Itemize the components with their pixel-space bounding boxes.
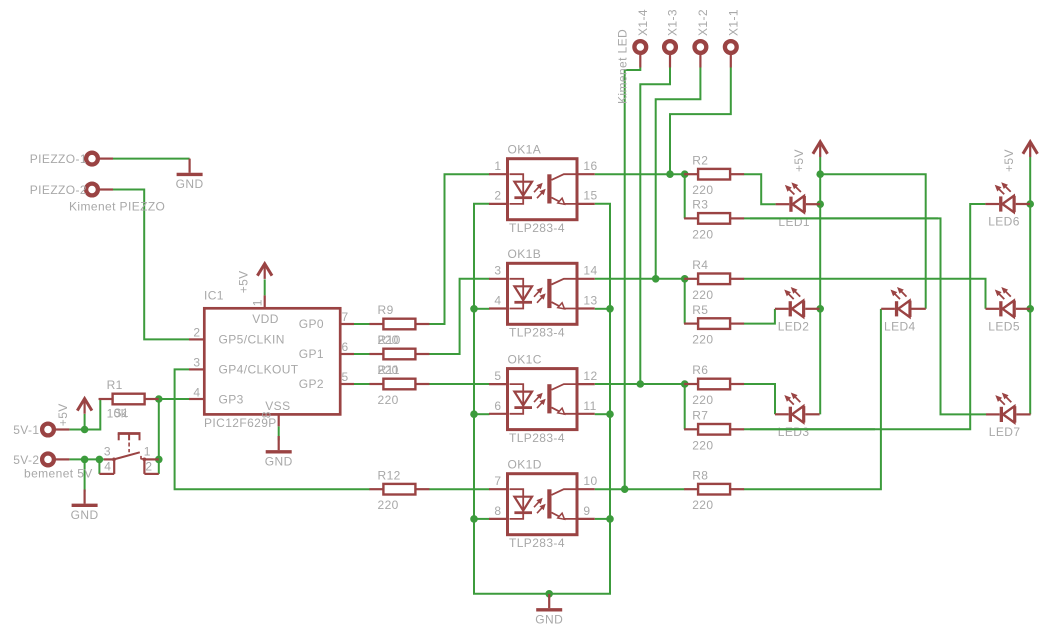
optocoupler OK1D [489, 474, 595, 535]
svg-text:9: 9 [583, 504, 590, 518]
resistor R11 [369, 379, 429, 390]
node X1-1 row A junction [666, 170, 674, 178]
IC1 pin 1 stub [264, 295, 266, 309]
svg-text:13: 13 [583, 294, 597, 308]
svg-text:Kimenet PIEZZO: Kimenet PIEZZO [69, 200, 165, 214]
svg-text:OK1A: OK1A [508, 143, 542, 157]
resistor R6 [684, 379, 744, 390]
wire OK1B pin4 [474, 308, 490, 310]
IC1 pin 7 stub [338, 323, 354, 325]
svg-text:220: 220 [378, 393, 399, 407]
LED LED2 [775, 287, 820, 317]
svg-text:TLP283-4: TLP283-4 [509, 221, 565, 235]
wire 5V-1 pad to +5V node [69, 429, 84, 431]
wire R1 to IC1 pin4 GP3 [159, 398, 189, 400]
IC1 pin 6 stub [338, 353, 354, 355]
svg-text:+5V: +5V [237, 270, 251, 293]
resistor R8 [684, 484, 744, 495]
LED LED4 [881, 287, 926, 317]
svg-text:220: 220 [378, 498, 399, 512]
svg-text:S1: S1 [114, 406, 129, 420]
wire R5 to LED2 [744, 309, 775, 324]
supply +5V arrow R1 [77, 399, 92, 414]
svg-text:R2: R2 [692, 153, 708, 167]
svg-text:PIEZZO-1: PIEZZO-1 [30, 152, 87, 166]
wire R12 to OK1D pin7 [429, 488, 490, 490]
svg-text:3: 3 [104, 444, 111, 458]
wire 5V-2 to GND drop [84, 459, 86, 491]
svg-text:R1: R1 [107, 378, 123, 392]
wire +5V left rail [819, 157, 821, 414]
wire R3 to LED7 [744, 218, 986, 414]
wire switch pin4 drop [98, 459, 100, 474]
node 5V-2 GND junction [81, 456, 89, 464]
svg-text:14: 14 [583, 264, 597, 278]
optocoupler OK1A [489, 159, 595, 220]
svg-text:R10: R10 [378, 333, 401, 347]
wire 5V-2 row [69, 458, 104, 460]
IC1 pin 5 stub [338, 383, 354, 385]
svg-text:8: 8 [494, 504, 501, 518]
svg-text:OK1B: OK1B [508, 247, 542, 261]
node LED5 anode junction [1026, 305, 1034, 313]
connector pad PIEZZO-1 [86, 153, 98, 165]
svg-text:GP2: GP2 [299, 377, 324, 391]
svg-text:GP1: GP1 [299, 347, 324, 361]
supply +5V arrow right rail [1023, 142, 1038, 157]
resistor R3 [684, 213, 744, 224]
svg-text:2: 2 [193, 326, 200, 340]
node emitter bus pin9 junction [606, 515, 614, 523]
wire R4 to LED5 [744, 279, 986, 309]
IC1 pin 8 VSS stub [278, 414, 280, 427]
svg-text:X1-3: X1-3 [666, 9, 680, 36]
svg-text:4: 4 [104, 460, 111, 474]
svg-text:4: 4 [193, 386, 200, 400]
wire R7 to LED6 [744, 204, 986, 429]
svg-text:GP5/CLKIN: GP5/CLKIN [219, 332, 285, 346]
LED LED3 [775, 393, 820, 423]
node cathode bus pin6 junction [470, 410, 478, 418]
wire PIEZZO-1 to GND [113, 158, 190, 160]
wire GP1 to R10 [354, 353, 370, 355]
svg-text:R11: R11 [378, 363, 400, 377]
wire OK1D pin9 [595, 518, 610, 520]
ground GND piezzo [176, 159, 204, 192]
wire R3 to LED7 overlay segment [750, 217, 938, 219]
svg-text:GP3: GP3 [219, 392, 244, 406]
wire R11 to OK1C pin5 [429, 383, 490, 385]
wire row A OK1A pin16 to R2 [595, 173, 685, 175]
svg-text:PIEZZO-2: PIEZZO-2 [30, 183, 87, 197]
svg-text:R6: R6 [692, 363, 708, 377]
svg-text:220: 220 [692, 183, 713, 197]
node R6-R7 junction [681, 380, 689, 388]
svg-text:1: 1 [251, 299, 265, 306]
node cathode bus pin8 junction [470, 515, 478, 523]
svg-text:R3: R3 [692, 198, 708, 212]
svg-text:TLP283-4: TLP283-4 [509, 326, 565, 340]
node R4-R5 junction [681, 275, 689, 283]
IC IC1 PIC12F629P [204, 289, 340, 430]
wire OK1B pin13 [595, 308, 610, 310]
svg-text:220: 220 [692, 288, 713, 302]
LED LED5 [986, 287, 1031, 317]
wire R9 to OK1A pin1 [429, 174, 490, 324]
wire R2 to LED1 [744, 174, 776, 204]
wire +5V branch to LED4 [820, 174, 926, 309]
LED LED6 [985, 182, 1030, 212]
svg-text:1: 1 [494, 159, 501, 173]
resistor R5 [684, 318, 744, 329]
wire PIEZZO-2 to IC1 pin2 [113, 190, 189, 340]
LED LED1 [776, 182, 821, 212]
wire branch to R3 [683, 174, 685, 218]
wire branch to R7 [683, 384, 685, 429]
svg-text:220: 220 [692, 393, 713, 407]
svg-text:R4: R4 [692, 258, 708, 272]
wire X1-4 drop to row D [625, 68, 641, 490]
svg-text:X1-4: X1-4 [636, 9, 650, 36]
svg-text:VDD: VDD [252, 312, 279, 326]
wire R7 to LED6 overlay segment [750, 428, 875, 430]
svg-text:+5V: +5V [1002, 149, 1016, 172]
optocoupler OK1C [489, 369, 595, 430]
svg-text:5V-2: 5V-2 [13, 453, 39, 467]
node X1-2 row B junction [652, 275, 660, 283]
node GND bus junction [545, 590, 553, 598]
svg-text:3: 3 [494, 264, 501, 278]
svg-text:7: 7 [342, 310, 349, 324]
svg-text:11: 11 [583, 399, 596, 413]
svg-text:TLP283-4: TLP283-4 [509, 431, 565, 445]
svg-text:2: 2 [494, 189, 501, 203]
wire row B OK1B pin14 to R4 [595, 278, 685, 280]
svg-text:5: 5 [342, 370, 349, 384]
IC1 pin 4 stub [189, 398, 205, 400]
wire GP0 to R9 [354, 323, 370, 325]
svg-text:+5V: +5V [56, 403, 70, 426]
svg-text:LED6: LED6 [988, 215, 1020, 229]
svg-text:LED7: LED7 [989, 425, 1021, 439]
connector pad X1-2 [695, 41, 707, 53]
svg-text:X1-1: X1-1 [726, 9, 740, 36]
wire IC1 pin3 GP4 to R12 [175, 369, 370, 489]
svg-text:IC1: IC1 [204, 289, 224, 303]
svg-text:10: 10 [583, 474, 597, 488]
node LED2 anode junction [816, 305, 824, 313]
wire IC1 pin1 to +5V arrow [264, 279, 266, 295]
svg-text:8: 8 [260, 411, 274, 418]
resistor R7 [684, 424, 744, 435]
connector pad 5V-1 [42, 424, 54, 436]
node +5V-R1 junction [81, 426, 89, 434]
node X1-4 row D junction [621, 485, 629, 493]
svg-text:R12: R12 [378, 468, 401, 482]
svg-text:GP0: GP0 [299, 317, 324, 331]
supply +5V arrow left rail [813, 142, 828, 157]
resistor R10 [369, 349, 429, 360]
svg-text:Kimenet LED: Kimenet LED [616, 29, 630, 104]
optocoupler OK1B [489, 263, 595, 324]
wire +5V arrow tail [84, 414, 86, 430]
resistor R2 [684, 169, 744, 180]
svg-text:220: 220 [692, 498, 713, 512]
wire GP2 to R11 [354, 383, 370, 385]
resistor R4 [684, 274, 744, 285]
svg-text:2: 2 [145, 460, 152, 474]
svg-text:12: 12 [583, 369, 597, 383]
node switch pin1 junction [155, 456, 163, 464]
LED LED7 [986, 393, 1031, 423]
svg-text:GP4/CLKOUT: GP4/CLKOUT [219, 362, 299, 376]
ground GND vss [265, 436, 293, 469]
svg-text:5: 5 [494, 369, 501, 383]
wire R10 to OK1B pin3 [429, 279, 490, 354]
wire X1-3 drop to row C [640, 68, 670, 385]
wire switch pin2 drop [158, 459, 160, 474]
svg-text:LED2: LED2 [778, 320, 810, 334]
connector pad PIEZZO-2 [86, 184, 98, 196]
svg-text:7: 7 [494, 474, 501, 488]
wire X1-2 drop to row B [656, 68, 701, 279]
svg-text:TLP283-4: TLP283-4 [509, 536, 565, 550]
connector pad 5V-2 [42, 454, 54, 466]
wire opto cathode bus to GND bus [474, 204, 610, 594]
wire OK1C pin11 [595, 413, 610, 415]
IC1 pin 2 stub [189, 338, 205, 340]
svg-text:15: 15 [583, 189, 597, 203]
svg-text:1: 1 [144, 444, 151, 458]
IC1 pin 3 stub [189, 368, 205, 370]
wire OK1D pin8 [474, 518, 490, 520]
node emitter bus pin11 junction [606, 410, 614, 418]
resistor R12 [369, 484, 429, 495]
svg-text:OK1C: OK1C [508, 352, 542, 366]
connector pad X1-4 [634, 41, 646, 53]
svg-text:X1-2: X1-2 [696, 9, 710, 36]
svg-text:R9: R9 [378, 303, 394, 317]
resistor R9 [369, 319, 429, 330]
svg-text:16: 16 [583, 159, 597, 173]
svg-text:LED5: LED5 [988, 320, 1020, 334]
svg-text:220: 220 [692, 438, 713, 452]
svg-text:3: 3 [193, 356, 200, 370]
wire X1-1 drop to row A [670, 68, 731, 175]
svg-text:6: 6 [494, 399, 501, 413]
node LED1 anode junction [816, 200, 824, 208]
svg-text:LED1: LED1 [778, 215, 810, 229]
wire R8 to LED4 [744, 309, 881, 489]
svg-text:OK1D: OK1D [508, 458, 542, 472]
wire row C OK1C pin12 to R6 [595, 383, 685, 385]
svg-text:6: 6 [342, 340, 349, 354]
svg-text:LED3: LED3 [778, 425, 810, 439]
svg-text:bemenet 5V: bemenet 5V [24, 467, 93, 481]
node X1-3 row C junction [637, 380, 645, 388]
svg-text:LED4: LED4 [884, 320, 916, 334]
svg-text:220: 220 [692, 333, 713, 347]
svg-text:+5V: +5V [792, 149, 806, 172]
ground GND opto [535, 594, 563, 627]
node cathode bus pin4 junction [470, 305, 478, 313]
supply +5V arrow IC1 [257, 264, 272, 279]
svg-text:R5: R5 [692, 303, 708, 317]
node +5V rail rowA junction [816, 170, 824, 178]
wire R1 left to +5V node [85, 399, 101, 430]
wire branch to R5 [683, 279, 685, 324]
node LED6 anode junction [1026, 200, 1034, 208]
svg-text:5V-1: 5V-1 [13, 423, 39, 437]
svg-text:R8: R8 [692, 468, 708, 482]
wire OK1C pin6 [474, 413, 490, 415]
svg-text:220: 220 [692, 227, 713, 241]
wire R1 node to switch pin1 [158, 399, 160, 459]
node emitter bus pin13 junction [606, 305, 614, 313]
wire +5V right rail [1029, 157, 1031, 414]
node R1-GP3 junction [155, 395, 163, 403]
ground GND bemenet [71, 490, 99, 523]
node R2-R3 junction [681, 170, 689, 178]
svg-text:VSS: VSS [265, 399, 290, 413]
wire row D OK1D pin10 to R8 [595, 488, 685, 490]
switch S1 [99, 434, 158, 474]
connector pad X1-1 [725, 41, 737, 53]
svg-text:4: 4 [494, 294, 501, 308]
wire R6 to LED3 [744, 384, 775, 414]
svg-text:R7: R7 [692, 409, 708, 423]
resistor R1 [99, 394, 159, 405]
wire VSS to GND [278, 426, 280, 440]
connector pad X1-3 [664, 41, 676, 53]
node switch pin3 junction [96, 456, 104, 464]
